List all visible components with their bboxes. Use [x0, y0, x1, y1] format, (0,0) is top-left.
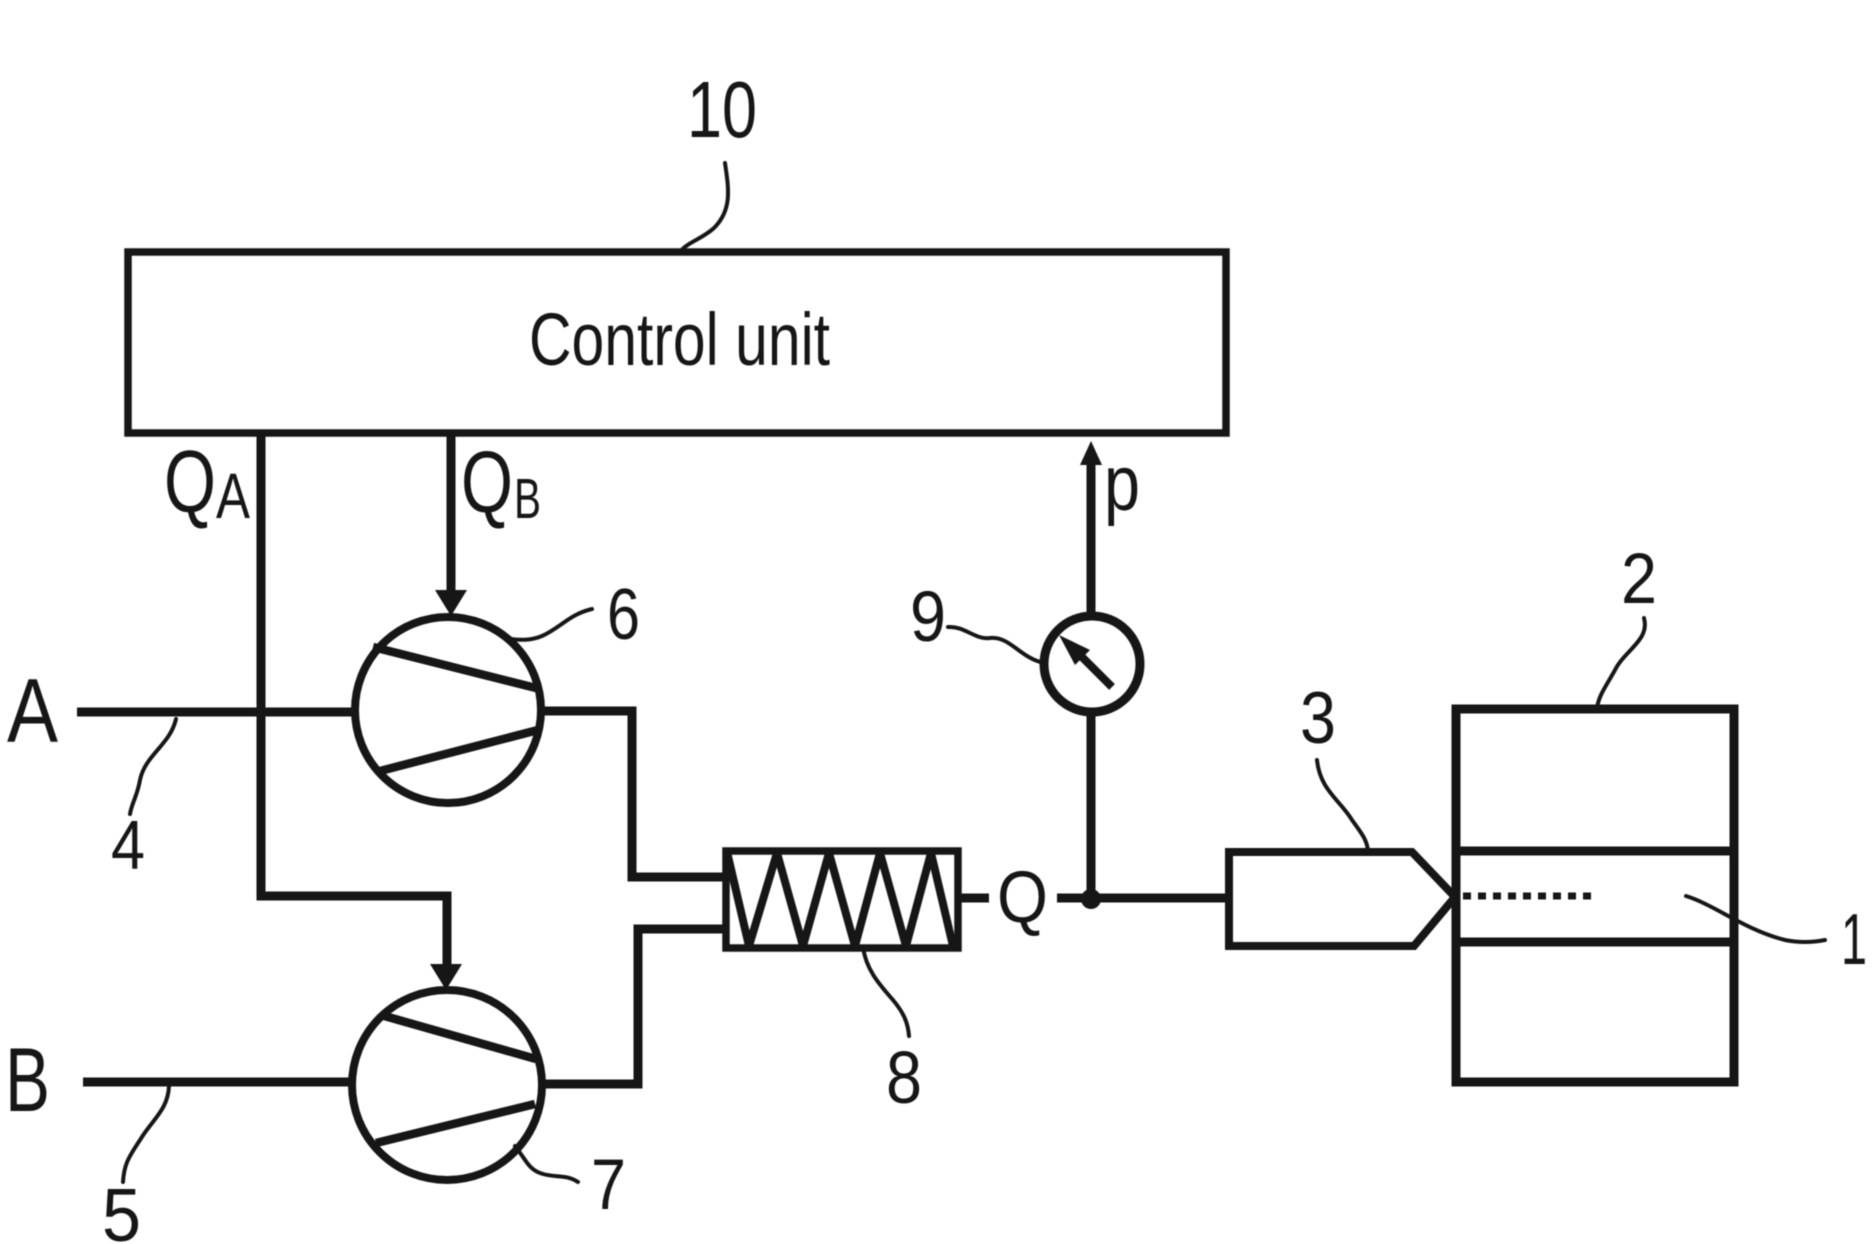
svg-text:A: A [216, 460, 250, 532]
svg-text:7: 7 [591, 1146, 626, 1225]
svg-text:p: p [1104, 439, 1140, 527]
svg-text:Q: Q [997, 857, 1048, 938]
svg-text:5: 5 [102, 1173, 141, 1244]
svg-text:8: 8 [886, 1036, 922, 1119]
svg-text:10: 10 [687, 65, 757, 154]
svg-text:4: 4 [111, 806, 145, 884]
svg-text:Q: Q [164, 432, 216, 531]
svg-text:A: A [7, 661, 58, 762]
svg-text:1: 1 [1841, 900, 1867, 980]
svg-text:B: B [5, 1030, 50, 1131]
svg-text:6: 6 [607, 575, 640, 655]
svg-text:9: 9 [910, 578, 946, 657]
svg-text:2: 2 [1621, 540, 1657, 619]
svg-text:Q: Q [461, 434, 513, 531]
svg-text:B: B [514, 467, 541, 531]
svg-text:Control unit: Control unit [529, 298, 830, 381]
svg-text:3: 3 [1300, 678, 1336, 759]
